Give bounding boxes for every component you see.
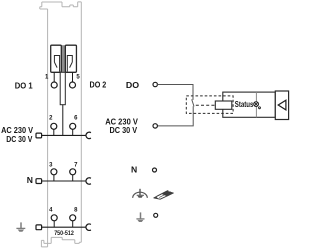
terminal 5: [70, 82, 76, 88]
LED index circle: [259, 107, 261, 109]
wire K2 to terminal 5: [72, 72, 74, 82]
N field terminal circle: [153, 168, 157, 172]
terminal 8: [70, 215, 76, 221]
svg-text:DO 2: DO 2: [90, 80, 107, 90]
bus interface triangle: [278, 100, 286, 110]
status LED lamp: [254, 102, 259, 107]
connector symbol AC: [36, 133, 42, 138]
N bus wire: [42, 180, 87, 182]
field terminal arc AC: [86, 132, 91, 138]
svg-text:7: 7: [74, 162, 78, 168]
PE field terminal circle: [154, 213, 158, 217]
terminal 2: [51, 123, 57, 129]
svg-text:8: 8: [74, 208, 78, 214]
contact symbol K2: [67, 56, 72, 72]
svg-text:DO: DO: [126, 80, 140, 90]
field terminal arc PE: [86, 224, 91, 230]
linkage dashed line: [196, 104, 216, 106]
terminal 4: [51, 215, 57, 221]
svg-text:1: 1: [45, 75, 49, 81]
wire coil to AC bus: [62, 105, 64, 136]
separator bar: [61, 45, 65, 72]
svg-text:750-512: 750-512: [54, 230, 74, 237]
terminal 1: [51, 82, 57, 88]
stem terminal 4: [53, 221, 55, 227]
relay coil body: [60, 72, 65, 104]
svg-text:2: 2: [49, 116, 53, 122]
PE bus wire: [42, 226, 87, 228]
stem terminal 2: [53, 129, 55, 135]
module outline: [40, 2, 82, 247]
ground symbol left: [16, 222, 25, 231]
svg-text:N: N: [27, 175, 33, 185]
relay contact box K2: [65, 45, 76, 72]
svg-text:DC 30 V: DC 30 V: [110, 125, 138, 135]
relay dashed box: [186, 96, 233, 114]
AC supply bus wire: [42, 134, 87, 136]
stem terminal 3: [53, 175, 55, 181]
svg-text:N: N: [131, 165, 137, 175]
connector symbol PE: [36, 225, 42, 230]
terminal 3: [51, 169, 57, 175]
svg-text:5: 5: [76, 75, 80, 81]
svg-text:Status: Status: [235, 100, 254, 109]
protected ground icon: [133, 189, 148, 198]
svg-text:DC 30 V: DC 30 V: [6, 134, 32, 144]
connector symbol N: [36, 179, 42, 184]
wire K1 to terminal 1: [53, 72, 55, 82]
bus interface box: [275, 91, 288, 120]
AC field terminal circle: [153, 124, 157, 128]
electronics box: [223, 92, 275, 117]
ground symbol right: [136, 212, 144, 222]
contact symbol K1: [54, 56, 59, 72]
stem terminal 7: [72, 175, 74, 181]
stem terminal 8: [72, 221, 74, 227]
svg-text:3: 3: [49, 162, 53, 168]
field terminal arc N: [86, 178, 91, 184]
wire switch to AC terminal: [157, 106, 193, 126]
status LED line: [255, 92, 257, 117]
svg-text:4: 4: [49, 208, 53, 214]
svg-text:DO 1: DO 1: [15, 80, 33, 90]
DO field terminal circle: [153, 82, 157, 86]
marking tool icon: [154, 190, 174, 199]
relay contact box K1: [51, 45, 62, 72]
terminal 7: [70, 169, 76, 175]
stem terminal 6: [72, 129, 74, 135]
coil resistor: [215, 101, 232, 109]
svg-text:6: 6: [74, 116, 78, 122]
switch blade: [192, 99, 194, 106]
wire DO to switch: [157, 85, 193, 100]
terminal 6: [70, 123, 76, 129]
